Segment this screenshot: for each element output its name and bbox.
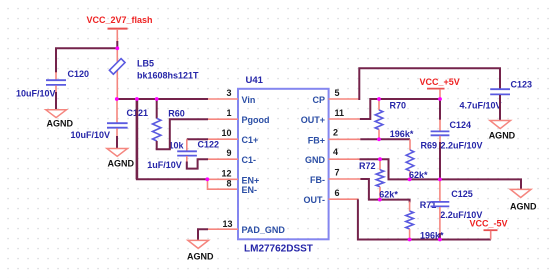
svg-text:5: 5: [335, 88, 340, 98]
pin 2 FB+: [329, 138, 361, 140]
resistor R72: [359, 159, 398, 199]
wire LB5 column: [116, 48, 118, 99]
ground AGND (C120): [46, 110, 74, 129]
pin 11 OUT+: [329, 118, 360, 120]
svg-text:bk1608hs121T: bk1608hs121T: [137, 70, 199, 80]
svg-text:2.2uF/10V: 2.2uF/10V: [441, 140, 483, 150]
svg-text:R72: R72: [359, 161, 376, 171]
ground AGND (PAD_GND): [187, 240, 214, 261]
svg-text:1: 1: [226, 108, 231, 118]
wire: [186, 139, 188, 151]
svg-text:VCC_2V7_flash: VCC_2V7_flash: [87, 15, 153, 25]
pin 7 FB-: [329, 178, 361, 180]
wire C120 branch: [56, 48, 117, 73]
wire C121 branch: [116, 99, 118, 124]
svg-text:VCC_+5V: VCC_+5V: [420, 77, 460, 87]
pin 4 GND: [329, 158, 360, 160]
wire OUT- rail: [358, 199, 491, 239]
wire R60 to Pgood: [156, 119, 208, 149]
svg-text:LB5: LB5: [137, 58, 154, 68]
wire GND net: [360, 159, 522, 189]
svg-text:PAD_GND: PAD_GND: [242, 225, 286, 235]
resistor R71: [406, 200, 444, 241]
svg-text:10k: 10k: [169, 140, 185, 150]
wire C122 to C1-: [187, 159, 208, 168]
power flag VCC_+5V: [420, 77, 460, 99]
svg-text:C125: C125: [451, 189, 473, 199]
wire Vin bus: [117, 98, 209, 100]
svg-text:4.7uF/10V: 4.7uF/10V: [460, 101, 502, 111]
pin 1 Pgood: [208, 118, 238, 120]
svg-text:4: 4: [333, 147, 338, 157]
junction (VCC_2V7 top): [115, 46, 119, 50]
wire VCC rail to C124: [439, 99, 441, 120]
svg-text:OUT+: OUT+: [301, 115, 325, 125]
capacitor C124: [431, 120, 483, 151]
junction (R71 bottom): [408, 238, 412, 242]
capacitor C121: [71, 108, 149, 140]
wire: [409, 139, 411, 150]
junction (R60 top): [155, 97, 159, 101]
svg-text:EN+: EN+: [242, 175, 260, 185]
svg-text:3: 3: [226, 88, 231, 98]
wire C124 to gnd rail: [439, 142, 441, 179]
svg-text:13: 13: [222, 219, 232, 229]
wire: [186, 156, 188, 163]
junction (R72 top): [378, 157, 382, 161]
wire EN horizontal: [136, 178, 207, 180]
wire: [116, 128, 118, 137]
svg-text:C1-: C1-: [242, 155, 257, 165]
junction (R72 bottom): [378, 198, 382, 202]
wire OUT+ rail: [360, 99, 440, 119]
wire: [439, 136, 441, 143]
junction (R69 bottom): [408, 178, 412, 182]
svg-text:1uF/10V: 1uF/10V: [147, 160, 182, 170]
svg-text:8: 8: [226, 179, 231, 189]
svg-text:C122: C122: [198, 140, 220, 150]
junction (C124 bottom): [438, 178, 442, 182]
capacitor C120: [16, 69, 89, 98]
svg-text:10: 10: [221, 128, 231, 138]
pin 9 C1-: [208, 158, 238, 160]
ground AGND (C121): [107, 149, 135, 169]
wire: [116, 136, 118, 148]
pin 5 CP: [329, 98, 359, 100]
svg-text:C124: C124: [450, 120, 472, 130]
junction (EN pins): [205, 177, 209, 181]
wire: [439, 207, 441, 234]
power flag VCC_-5V: [470, 219, 508, 240]
wire: [439, 120, 441, 132]
svg-text:U41: U41: [246, 75, 264, 86]
resistor R70: [375, 99, 414, 139]
wire FB- net: [360, 179, 409, 203]
svg-text:12: 12: [221, 168, 231, 178]
pin 10 C1+: [208, 138, 238, 140]
junction (LB5 bottom): [115, 97, 119, 101]
pin 12 EN+: [208, 178, 238, 180]
wire PAD_GND: [198, 229, 208, 240]
capacitor C122: [147, 140, 219, 170]
svg-text:Vin: Vin: [242, 95, 256, 105]
wire: [55, 72, 57, 80]
svg-text:6: 6: [335, 188, 340, 198]
wire CP to top rail: [359, 68, 500, 100]
op-amp U41 LM27762DSST: [208, 75, 360, 254]
capacitor C123: [460, 80, 533, 111]
svg-text:R69: R69: [421, 141, 438, 151]
wire: [409, 202, 411, 212]
svg-text:10uF/10V: 10uF/10V: [71, 130, 111, 140]
svg-text:FB-: FB-: [310, 175, 325, 185]
inductor LB5 bk1608hs121T: [109, 58, 199, 80]
svg-text:AGND: AGND: [47, 118, 74, 128]
svg-text:R60: R60: [168, 109, 185, 119]
svg-text:C1+: C1+: [242, 135, 259, 145]
ground AGND (C123): [489, 121, 516, 141]
svg-text:OUT-: OUT-: [304, 195, 326, 205]
wire FB+: [360, 138, 410, 140]
svg-text:R70: R70: [390, 100, 407, 110]
svg-text:C120: C120: [68, 69, 90, 79]
pin 13 PAD_GND: [208, 228, 238, 230]
svg-text:9: 9: [226, 148, 231, 158]
pin 6 OUT-: [329, 198, 359, 200]
wire C125 top: [439, 179, 441, 201]
junction (FB+): [377, 137, 381, 141]
svg-text:196k*: 196k*: [390, 129, 414, 139]
svg-text:AGND: AGND: [187, 251, 214, 261]
resistor R69: [406, 141, 437, 180]
junction (C125 bottom): [438, 238, 442, 242]
pin 3 Vin: [208, 98, 238, 100]
resistor R60: [153, 99, 185, 150]
svg-text:7: 7: [335, 168, 340, 178]
svg-text:2: 2: [333, 127, 338, 137]
wire: [55, 92, 57, 110]
svg-text:11: 11: [335, 108, 345, 118]
svg-text:AGND: AGND: [108, 158, 135, 168]
ground AGND (right rail): [510, 189, 537, 211]
wire: [499, 95, 501, 120]
svg-text:10uF/10V: 10uF/10V: [16, 88, 56, 98]
junction (R70 top): [377, 97, 381, 101]
junction (VCC +5V): [438, 97, 442, 101]
wire C1+ to C122: [187, 138, 208, 140]
svg-text:AGND: AGND: [489, 131, 516, 141]
junction (EN riser): [135, 97, 139, 101]
capacitor C125: [431, 189, 483, 220]
power flag VCC_2V7_flash: [87, 15, 153, 49]
svg-text:VCC_-5V: VCC_-5V: [470, 219, 508, 229]
svg-text:LM27762DSST: LM27762DSST: [244, 243, 313, 254]
wire EN riser: [136, 99, 139, 179]
svg-text:Pgood: Pgood: [242, 115, 270, 125]
svg-text:GND: GND: [305, 155, 326, 165]
svg-text:AGND: AGND: [510, 201, 537, 211]
svg-text:C123: C123: [511, 80, 533, 90]
svg-text:62k*: 62k*: [379, 190, 398, 200]
wire: [439, 233, 441, 240]
svg-text:CP: CP: [312, 95, 325, 105]
svg-text:FB+: FB+: [308, 135, 325, 145]
wire EN- drop: [208, 179, 239, 189]
svg-text:EN-: EN-: [242, 185, 258, 195]
wire: [55, 86, 57, 94]
